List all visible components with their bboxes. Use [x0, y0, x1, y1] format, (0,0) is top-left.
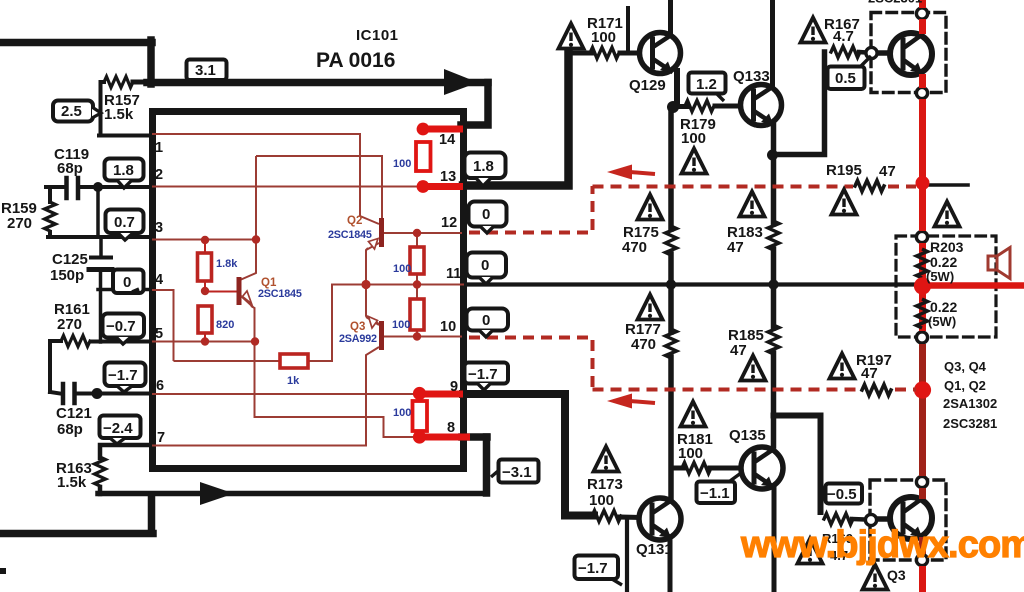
- svg-text:R173: R173: [587, 476, 623, 493]
- wire stub right of red rail at y185: [928, 183, 968, 187]
- warning triangle R185: [741, 356, 766, 381]
- warning triangle R171: [559, 24, 584, 49]
- resistor R157: [104, 77, 133, 88]
- svg-text:Q3: Q3: [887, 567, 906, 583]
- transistor Q1 inner: [239, 277, 253, 307]
- label box -1.7 pin9: [465, 363, 509, 391]
- svg-text:1.2: 1.2: [696, 76, 717, 93]
- svg-text:1.8: 1.8: [473, 158, 494, 175]
- dashed feedback lower: [469, 338, 916, 390]
- node C121 junction: [92, 388, 103, 399]
- warning triangle R195: [832, 190, 857, 215]
- resistor R203 zigzag upper 0.22: [917, 249, 928, 278]
- wire rail B upper: [771, 123, 777, 224]
- transistor Q1 output top: [890, 33, 932, 75]
- label box -3.1: [491, 460, 539, 483]
- svg-text:68p: 68p: [57, 160, 83, 177]
- wire Q129 collector up: [668, 0, 673, 34]
- wire Q135 emitter down: [772, 487, 777, 592]
- svg-text:820: 820: [216, 319, 234, 331]
- svg-text:13: 13: [440, 169, 456, 185]
- node rail output dot: [914, 277, 931, 294]
- wire Q2 base feed inner: [256, 156, 382, 218]
- svg-text:Q129: Q129: [629, 77, 666, 94]
- svg-text:Q133: Q133: [733, 68, 770, 85]
- wire Q1 collector riser: [240, 156, 256, 280]
- svg-text:0.7: 0.7: [114, 214, 135, 231]
- resistor R163: [95, 457, 106, 494]
- node rail feedback bottom dot: [914, 381, 931, 398]
- svg-text:47: 47: [861, 365, 878, 382]
- node Q129 emitter junction: [667, 101, 679, 113]
- wire riser pin8: [483, 437, 491, 493]
- wire base bias stub Q129: [626, 8, 630, 50]
- svg-text:0.22: 0.22: [930, 299, 957, 315]
- resistor 1k: [280, 354, 308, 368]
- svg-text:1.5k: 1.5k: [104, 106, 134, 123]
- svg-text:47: 47: [727, 239, 744, 256]
- svg-text:2SC1845: 2SC1845: [328, 229, 372, 241]
- svg-text:Q3, Q4: Q3, Q4: [944, 359, 987, 374]
- svg-text:4.7: 4.7: [833, 28, 854, 45]
- svg-text:2SC1845: 2SC1845: [258, 288, 302, 300]
- wire Q3 emitter up: [366, 285, 379, 325]
- resistor 100 b: [410, 247, 424, 274]
- node ladder pin11 junction: [413, 280, 421, 288]
- resistor R195 zigzag in dashed line: [855, 181, 884, 192]
- wire pin4 outside: [98, 288, 151, 292]
- resistor 100 d bottom: [413, 401, 428, 431]
- svg-text:−1.7: −1.7: [108, 367, 138, 384]
- wire pin14 red stub: [420, 126, 463, 133]
- svg-text:1.8k: 1.8k: [216, 258, 238, 270]
- svg-text:100: 100: [392, 319, 410, 331]
- svg-text:12: 12: [441, 215, 457, 231]
- node pin9 dot: [413, 387, 426, 400]
- red rail output: [919, 0, 926, 592]
- wire R157 left leg down to pin1: [99, 82, 151, 136]
- label box 1.8 right: [465, 153, 506, 187]
- dashed feedback upper: [469, 186, 916, 233]
- wire output red right: [922, 282, 1024, 288]
- svg-text:1: 1: [155, 140, 163, 156]
- wire pin5 inner: [152, 341, 255, 343]
- rail B between: [771, 249, 777, 328]
- warning triangle R203: [935, 202, 960, 227]
- resistor R179: [673, 101, 743, 112]
- warning triangle R183: [740, 192, 765, 217]
- wire Q3 base to pin10: [384, 336, 462, 338]
- node Q1 base upper junction: [201, 287, 209, 295]
- speaker icon: [988, 248, 1010, 279]
- rail B lower to Q135: [771, 353, 777, 446]
- wire pin13 red stub: [420, 183, 463, 190]
- svg-text:2SC2301: 2SC2301: [868, 0, 922, 6]
- node pin8 dot: [413, 430, 426, 443]
- rail A between R175 and R177: [668, 254, 674, 332]
- wire Q133 collector up: [770, 0, 775, 86]
- svg-text:Q135: Q135: [729, 427, 766, 444]
- dashed box top output pair: [871, 13, 946, 93]
- wire top-left input bus: [0, 39, 152, 47]
- resistor R171: [569, 48, 648, 59]
- wire pin8 stub black: [462, 433, 487, 441]
- svg-text:0.5: 0.5: [835, 70, 856, 87]
- svg-text:Q3: Q3: [350, 321, 365, 333]
- node base bottom power: [865, 514, 876, 525]
- red rail dark segments near bottom transistor: [919, 344, 926, 554]
- svg-text:0: 0: [123, 274, 131, 291]
- warning triangle R177: [638, 295, 663, 320]
- warning triangle R179: [682, 149, 707, 174]
- svg-text:(5W): (5W): [928, 314, 956, 329]
- svg-text:100: 100: [393, 263, 411, 275]
- label box -0.7: [103, 314, 145, 345]
- svg-text:470: 470: [622, 239, 647, 256]
- wire pin7 outside to R163: [100, 445, 152, 458]
- node terminal emitter bottom: [916, 554, 927, 565]
- node pin3 junction: [252, 235, 260, 243]
- wire bottom-left rail: [0, 496, 153, 534]
- svg-text:14: 14: [439, 132, 455, 148]
- wire pin3 outside: [48, 235, 151, 239]
- svg-text:2SA992: 2SA992: [339, 333, 377, 345]
- rail B R183: [768, 221, 779, 250]
- svg-text:www.bjjdwx.com: www.bjjdwx.com: [740, 524, 1024, 566]
- svg-text:9: 9: [450, 379, 458, 395]
- svg-text:−3.1: −3.1: [502, 464, 532, 481]
- warning triangle R173: [594, 447, 619, 472]
- wire 1k right leg up to pin11: [308, 285, 464, 362]
- wire pin3 inner: [152, 239, 256, 241]
- svg-text:Q131: Q131: [636, 541, 673, 558]
- resistor zigzag lower 0.22: [917, 299, 928, 328]
- svg-text:1.5k: 1.5k: [57, 474, 87, 491]
- warning triangle R169: [798, 539, 823, 564]
- wire base top power transistor: [877, 50, 892, 56]
- resistor R161: [50, 336, 151, 393]
- node pin14 dot: [417, 123, 430, 136]
- svg-text:−0.7: −0.7: [106, 318, 136, 335]
- svg-text:100: 100: [393, 407, 411, 419]
- wire pin13 to Q129 base riser: [463, 53, 569, 186]
- wire pin9 red stub: [417, 391, 463, 398]
- arrow feedback upper: [607, 165, 655, 180]
- svg-text:C125: C125: [52, 251, 88, 268]
- wire pin1 inner: [152, 134, 379, 224]
- svg-text:6: 6: [156, 378, 164, 394]
- node ladder pin12 junction: [413, 229, 421, 237]
- label box 1.8 left: [105, 159, 144, 189]
- resistor R197 zigzag in dashed line: [862, 385, 891, 396]
- label box -2.4: [100, 416, 141, 445]
- wire Q2 emitter down: [366, 248, 368, 285]
- node pin11 rail B junction: [768, 279, 778, 289]
- svg-text:Q1, Q2: Q1, Q2: [944, 378, 986, 393]
- resistor R177: [666, 329, 677, 358]
- warning triangle R197: [830, 354, 855, 379]
- svg-text:100: 100: [589, 492, 614, 509]
- wire base bottom power transistor: [877, 516, 892, 522]
- label box -1.7 bottom: [575, 556, 623, 586]
- wire pin4 inner to 1k: [152, 290, 174, 361]
- capacitor C125: [89, 237, 112, 342]
- svg-text:−1.1: −1.1: [700, 485, 730, 502]
- wire pin6 inner: [152, 393, 419, 395]
- transistor Q131: [639, 498, 681, 540]
- node pin11 rail A junction: [666, 279, 676, 289]
- warning triangle R181: [681, 402, 706, 427]
- svg-text:0: 0: [482, 312, 490, 329]
- node base top power: [866, 47, 877, 58]
- wire Q2 base to pin12: [384, 232, 462, 234]
- wire junction down to pin3 line: [96, 187, 100, 237]
- node R203 top: [916, 231, 927, 242]
- wire hook down to pin14: [461, 83, 488, 126]
- svg-text:2: 2: [155, 167, 163, 183]
- node ladder pin10 junction: [413, 332, 421, 340]
- node Q2 Q3 emitter junction: [361, 280, 370, 289]
- resistor R167: [831, 47, 866, 58]
- node terminal emitter top: [916, 87, 927, 98]
- svg-text:0: 0: [482, 206, 490, 223]
- wire Q135 collector elbow to R169: [774, 416, 821, 513]
- svg-text:5: 5: [155, 326, 163, 342]
- wire pin2 inner: [152, 186, 423, 188]
- svg-text:4: 4: [155, 272, 163, 288]
- svg-text:1.8: 1.8: [113, 162, 134, 179]
- warning triangle Q3 bottom: [863, 565, 888, 590]
- svg-text:100: 100: [393, 158, 411, 170]
- wire pin11 output line: [464, 282, 920, 286]
- svg-text:R195: R195: [826, 162, 862, 179]
- wire 100 ladder stubs: [416, 233, 418, 337]
- transistor Q135: [741, 447, 783, 489]
- svg-text:2SC3281: 2SC3281: [943, 416, 997, 431]
- rail A middle: [668, 107, 674, 229]
- svg-text:R203: R203: [930, 239, 964, 255]
- label box 0 pin11: [467, 253, 507, 285]
- resistor R169: [824, 514, 866, 525]
- svg-text:Q1: Q1: [261, 277, 277, 289]
- wire Q129 emitter down: [674, 71, 680, 105]
- label box -0.5: [826, 484, 863, 504]
- capacitor C121: [50, 384, 151, 403]
- wire Q131 emitter down: [668, 538, 673, 592]
- resistor 100 a top: [416, 142, 431, 171]
- svg-text:2.5: 2.5: [61, 103, 82, 120]
- transistor Q129: [640, 33, 681, 74]
- svg-text:−0.5: −0.5: [827, 486, 857, 503]
- node R203 bottom: [916, 332, 927, 343]
- svg-text:100: 100: [591, 29, 616, 46]
- wire vertical drop to R157 node: [147, 40, 155, 84]
- resistor R185: [768, 325, 779, 354]
- svg-text:470: 470: [631, 336, 656, 353]
- resistor R173: [592, 511, 642, 522]
- svg-text:270: 270: [57, 316, 82, 333]
- wire R167 elbow: [774, 52, 825, 155]
- label box 0 pin12: [469, 202, 507, 234]
- wire 1k left leg: [174, 360, 281, 362]
- svg-text:100: 100: [681, 130, 706, 147]
- node pin2 junction: [93, 182, 103, 192]
- node rail feedback top dot: [916, 176, 930, 190]
- svg-text:(5W): (5W): [926, 269, 954, 284]
- arrow right on bottom run: [200, 482, 234, 505]
- label box 0 pin10: [467, 309, 509, 338]
- node rail B R167 junction: [767, 150, 778, 161]
- wire Q1 emitter chain down: [251, 306, 419, 437]
- wire pin1 top feed with arrow: [147, 79, 488, 87]
- node terminal collector bottom: [916, 476, 927, 487]
- svg-text:7: 7: [157, 430, 165, 446]
- resistor 820: [198, 306, 212, 333]
- resistor R181: [671, 463, 743, 474]
- capacitor C119: [46, 178, 150, 198]
- svg-text:−2.4: −2.4: [103, 420, 133, 437]
- svg-text:IC101: IC101: [356, 27, 399, 44]
- resistor 1.8k: [198, 253, 212, 281]
- svg-text:150p: 150p: [50, 267, 84, 284]
- node 820 bottom junction: [201, 337, 209, 345]
- wire R157 right leg: [133, 80, 149, 85]
- label box 0 pin4: [113, 270, 144, 294]
- arrow feedback lower: [607, 394, 655, 409]
- node pin5 Q1 emitter junction: [251, 337, 259, 345]
- resistor 100 c: [410, 299, 424, 330]
- label box 0.5: [828, 56, 872, 89]
- label box 1.2: [689, 73, 726, 102]
- IC101 box outline: [153, 112, 464, 469]
- svg-text:68p: 68p: [57, 421, 83, 438]
- svg-text:47: 47: [879, 163, 896, 180]
- svg-text:0.22: 0.22: [930, 254, 957, 270]
- dashed box R203 speaker network: [896, 236, 996, 337]
- label box 2.5: [53, 101, 101, 122]
- label box -1.1: [697, 473, 742, 503]
- warning triangle R175: [638, 195, 663, 220]
- transistor Q133: [741, 85, 782, 126]
- dashed box bottom output pair: [870, 480, 946, 560]
- svg-text:11: 11: [446, 266, 461, 282]
- resistor R159: [45, 187, 56, 237]
- label box 3.1: [187, 60, 227, 81]
- svg-text:2SA1302: 2SA1302: [943, 396, 997, 411]
- label box 0.7: [106, 210, 144, 241]
- svg-text:3.1: 3.1: [195, 62, 216, 79]
- wire pin8 red stub: [415, 434, 470, 441]
- arrow right on top feed: [444, 69, 478, 95]
- node pin13 dot: [417, 180, 430, 193]
- svg-text:−1.7: −1.7: [468, 366, 498, 383]
- transistor Q3 output bottom: [890, 497, 932, 539]
- svg-text:0: 0: [481, 257, 489, 274]
- svg-text:1k: 1k: [287, 375, 300, 387]
- svg-text:C121: C121: [56, 405, 92, 422]
- rail A lower: [668, 357, 674, 500]
- wire 1.8k stubs: [205, 240, 237, 292]
- label box -1.7 left: [105, 363, 146, 393]
- resistor R175: [666, 226, 677, 255]
- svg-text:3: 3: [155, 220, 163, 236]
- wire feedback bottom run to pin8: [98, 491, 486, 497]
- node terminal top: [916, 8, 927, 19]
- transistor Q3 inner: [366, 317, 382, 351]
- svg-text:10: 10: [440, 319, 456, 335]
- transistor Q2 inner: [366, 218, 382, 250]
- svg-text:100: 100: [678, 445, 703, 462]
- svg-text:Q2: Q2: [347, 215, 362, 227]
- wire pin9 to R173: [463, 394, 594, 516]
- artifact dot bottom-left: [0, 568, 6, 574]
- node 1.8k top junction: [201, 236, 209, 244]
- wire Q131 base node down: [625, 519, 629, 592]
- svg-text:270: 270: [7, 215, 32, 232]
- svg-text:47: 47: [730, 342, 747, 359]
- svg-text:−1.7: −1.7: [578, 560, 608, 577]
- warning triangle R167: [801, 18, 826, 43]
- svg-text:8: 8: [447, 420, 455, 436]
- svg-text:PA 0016: PA 0016: [316, 49, 395, 72]
- wire pin7 inner to Q3 collector: [152, 347, 379, 446]
